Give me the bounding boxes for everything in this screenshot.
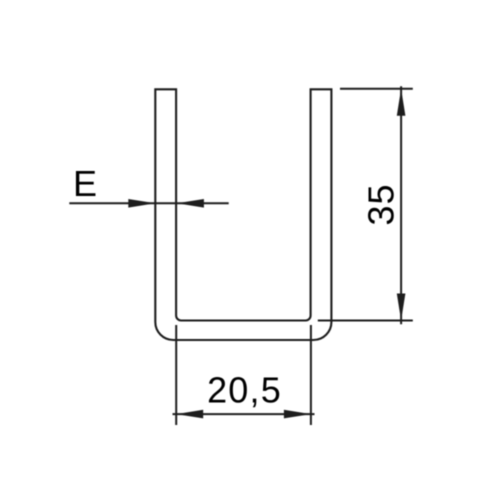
dimension 35: up arrowhead (397, 89, 406, 116)
dimension 20,5: right arrowhead (284, 410, 311, 419)
dimension E: leader line (69, 202, 228, 204)
dimension 35: top extension line (340, 88, 413, 90)
U-channel profile outline (155, 89, 331, 340)
dimension 35: bottom extension line (318, 320, 413, 322)
dimension 20,5: horizontal dimension line (173, 413, 315, 415)
svg-text:35: 35 (361, 183, 402, 225)
dimension 35: down arrowhead (397, 294, 406, 321)
dimension 20,5: left extension line (175, 325, 177, 425)
dimension 35: vertical dimension line (400, 86, 402, 324)
dimension 20,5: right extension line (310, 325, 312, 425)
dimension E: right-pointing arrowhead (128, 199, 155, 208)
dimension 20,5: left arrowhead (176, 410, 203, 419)
dimension E: left-pointing arrowhead (177, 199, 204, 208)
svg-text:20,5: 20,5 (207, 369, 282, 410)
svg-text:E: E (73, 163, 97, 204)
